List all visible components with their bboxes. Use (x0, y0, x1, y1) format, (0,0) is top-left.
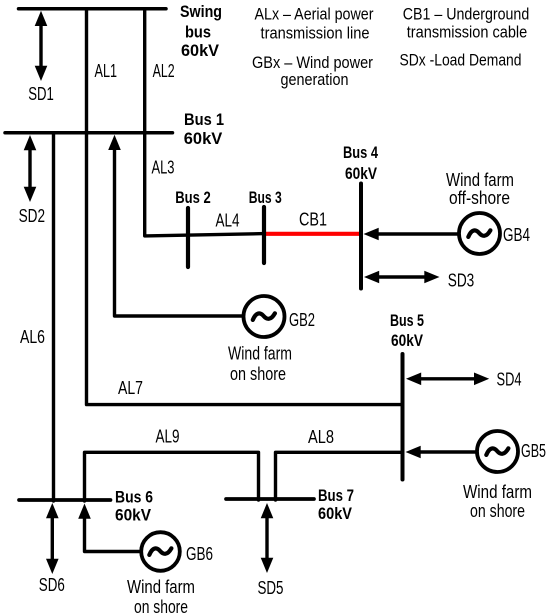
svg-text:AL3: AL3 (152, 157, 175, 178)
svg-text:transmission line: transmission line (261, 24, 370, 43)
svg-text:on shore: on shore (470, 500, 525, 521)
svg-text:Bus 2: Bus 2 (175, 188, 211, 207)
svg-text:60kV: 60kV (345, 164, 378, 183)
svg-text:GB5: GB5 (521, 440, 546, 461)
svg-text:SD6: SD6 (39, 574, 65, 595)
svg-text:SDx -Load Demand: SDx -Load Demand (400, 51, 522, 70)
svg-text:AL2: AL2 (153, 60, 175, 81)
svg-text:AL7: AL7 (118, 377, 143, 398)
svg-text:GB4: GB4 (503, 224, 530, 245)
svg-text:GB6: GB6 (186, 543, 213, 564)
svg-text:SD5: SD5 (258, 577, 284, 598)
svg-text:AL9: AL9 (156, 426, 180, 447)
svg-text:Wind farm: Wind farm (463, 481, 532, 502)
svg-text:Bus 6: Bus 6 (115, 488, 153, 507)
svg-text:bus: bus (185, 23, 211, 42)
svg-text:60kV: 60kV (391, 331, 424, 350)
svg-text:generation: generation (281, 70, 349, 89)
svg-text:CB1: CB1 (299, 209, 327, 230)
svg-text:SD4: SD4 (497, 369, 522, 390)
svg-text:Bus 4: Bus 4 (343, 143, 378, 162)
svg-text:SD3: SD3 (448, 270, 475, 291)
svg-text:Bus 7: Bus 7 (318, 486, 354, 505)
svg-text:on shore: on shore (134, 596, 188, 616)
svg-text:Bus 3: Bus 3 (249, 188, 282, 207)
svg-text:Wind farm: Wind farm (228, 343, 292, 364)
svg-text:GB2: GB2 (289, 309, 315, 330)
svg-text:60kV: 60kV (115, 506, 152, 525)
svg-text:ALx – Aerial power: ALx – Aerial power (255, 5, 374, 24)
svg-text:SD1: SD1 (28, 83, 54, 104)
svg-text:on shore: on shore (230, 363, 286, 384)
svg-text:off-shore: off-shore (449, 187, 510, 208)
svg-text:Wind farm: Wind farm (127, 576, 195, 597)
svg-text:60kV: 60kV (184, 129, 223, 148)
svg-text:CB1 – Underground: CB1 – Underground (403, 5, 530, 24)
svg-text:60kV: 60kV (181, 41, 220, 60)
svg-text:Bus 1: Bus 1 (184, 110, 224, 129)
svg-text:AL8: AL8 (308, 426, 334, 447)
svg-text:AL1: AL1 (95, 60, 118, 81)
svg-text:60kV: 60kV (318, 504, 353, 523)
svg-text:transmission cable: transmission cable (407, 23, 528, 42)
svg-text:AL6: AL6 (20, 326, 45, 347)
svg-text:SD2: SD2 (19, 205, 45, 226)
svg-text:AL4: AL4 (216, 210, 240, 231)
svg-text:Swing: Swing (180, 2, 222, 21)
svg-text:Bus 5: Bus 5 (390, 311, 424, 330)
